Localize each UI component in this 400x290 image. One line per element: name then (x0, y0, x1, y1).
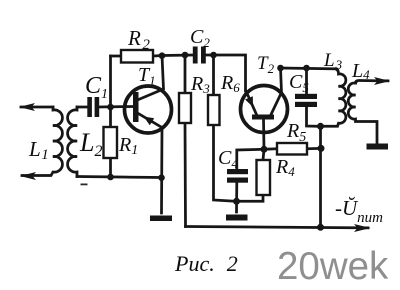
svg-text:Рис.2: Рис.2 (174, 251, 238, 276)
svg-text:20wek: 20wek (277, 245, 389, 288)
